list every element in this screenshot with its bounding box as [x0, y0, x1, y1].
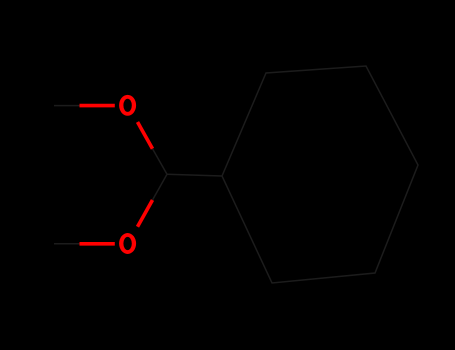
atom O1 (top oxygen) — [119, 95, 136, 116]
bond O1-CH acetal (dark carbon half) — [153, 149, 168, 175]
bond CH3-O bottom (red half) — [80, 242, 115, 246]
wire: methyl C stub (bottom, carbon half of CH3-O bond) — [54, 243, 80, 245]
bond O2-CH acetal (red half) — [138, 200, 153, 227]
atom O2 (bottom oxygen) — [119, 233, 136, 254]
cyclohexane ring — [222, 66, 418, 283]
bond CH-ring (acetal carbon to cyclohexane ipso carbon) — [167, 174, 222, 176]
wire: methyl C stub (top, carbon half of CH3-O bond) — [54, 105, 80, 107]
bond CH3-O top (red half) — [80, 104, 115, 108]
bond O2-CH acetal (dark carbon half) — [153, 174, 168, 200]
bond O1-CH acetal (red half) — [138, 122, 153, 149]
